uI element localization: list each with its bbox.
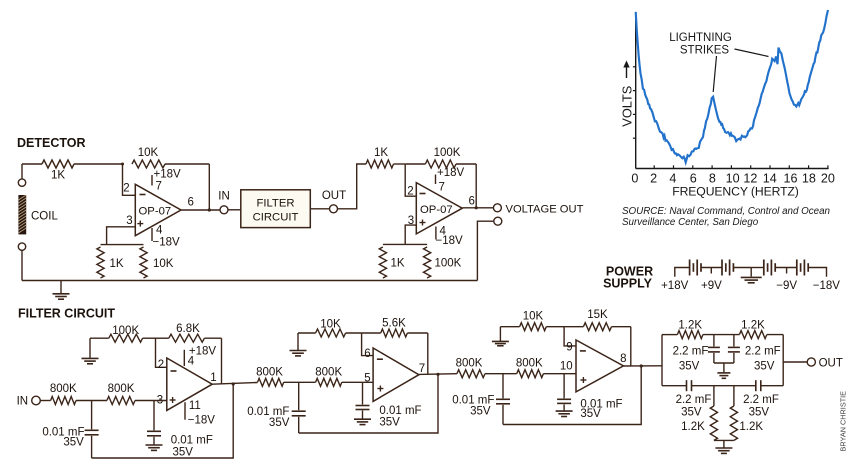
svg-text:35V: 35V (379, 417, 400, 429)
capacitor C6 0.01mF 35V (557, 399, 571, 403)
wire twin-T bottom left segment (662, 385, 687, 387)
wire C6 to ground (563, 404, 565, 411)
ground C6 stage C (556, 411, 573, 416)
label +18V supply U3 (189, 346, 217, 358)
terminal filter IN (32, 396, 41, 405)
node feedback/output junction U1 (208, 208, 211, 211)
label FILTER (256, 198, 294, 210)
wire coil top lead (21, 164, 23, 179)
wire B2 to ground (733, 267, 751, 269)
wire C7 bottom lead (713, 353, 715, 363)
capacitor C5 0.01mF lead (node1 C) (502, 374, 504, 399)
node feedback/output junction U2 (475, 206, 478, 209)
svg-text:1K: 1K (374, 147, 388, 159)
wire twin-T top left segment (662, 334, 677, 336)
spectrum curve (lightning strike noise) (636, 10, 828, 162)
svg-text:STRIKES: STRIKES (680, 45, 730, 57)
svg-text:2.2 mF: 2.2 mF (743, 394, 779, 406)
svg-text:10K: 10K (523, 311, 544, 323)
label +18V supply U2 (437, 167, 465, 179)
svg-text:OUT: OUT (819, 358, 843, 370)
resistor R12 800K (stage A second) (107, 397, 135, 405)
node junction at R1/R2 (121, 163, 124, 166)
svg-text:DETECTOR: DETECTOR (17, 136, 86, 150)
svg-text:−18V: −18V (813, 280, 841, 292)
block FILTER CIRCUIT (241, 190, 310, 228)
label +18V supply U1 (154, 169, 182, 181)
pin 4 stub U3 (183, 350, 185, 366)
label C9 rating 35V (681, 406, 702, 418)
svg-text:35V: 35V (173, 446, 194, 458)
resistor R24 1.2K (twin-T shunt right) (730, 386, 737, 441)
wire OUT to stage2 riser (338, 164, 366, 209)
svg-text:800K: 800K (50, 383, 77, 395)
label U2 pin6 (469, 196, 475, 208)
svg-text:35V: 35V (754, 361, 775, 373)
svg-text:1: 1 (210, 372, 216, 384)
label U1 pin7 (156, 181, 162, 193)
label C5 rating 35V (470, 406, 491, 418)
svg-text:1.2K: 1.2K (678, 319, 702, 331)
label VOLTAGE OUT (506, 203, 584, 215)
graph x-axis tick marks (654, 165, 828, 168)
svg-text:CIRCUIT: CIRCUIT (253, 212, 299, 224)
wire C4 to ground (362, 411, 364, 420)
wire feedback drop stage2 (475, 164, 477, 208)
svg-text:+18V: +18V (154, 169, 182, 181)
svg-text:6: 6 (364, 348, 370, 360)
terminal OUT (330, 205, 338, 213)
svg-text:0: 0 (631, 171, 638, 185)
resistor R1 1K (detector input) (42, 160, 74, 168)
svg-text:3: 3 (126, 215, 132, 227)
label U5 pin10 (560, 361, 573, 373)
wire block to OUT terminal (310, 208, 329, 210)
svg-text:1K: 1K (51, 170, 65, 182)
svg-text:7: 7 (419, 363, 425, 375)
wire shunt bar to ground (723, 440, 725, 447)
coil L1 (18, 195, 26, 234)
label C5 value 0.01 mF (452, 394, 494, 406)
label OUT (filter block output) (322, 190, 346, 202)
wire ground to B3 (751, 267, 764, 269)
label C7 value 2.2 mF (673, 346, 709, 358)
graph x-axis tick labels 0-20 (631, 171, 835, 185)
wire stage B bottom feedback (299, 374, 438, 433)
label U2 inverting - (420, 193, 426, 195)
op-amp U5 (filter stage C) (576, 340, 623, 392)
svg-text:16: 16 (783, 171, 797, 185)
svg-text:8: 8 (709, 171, 716, 185)
wire node to pin2 U2 (405, 164, 416, 196)
label R14 value 5.6K (382, 318, 406, 330)
wire U2 output (462, 207, 493, 209)
resistor R23 1.2K (twin-T shunt left) (710, 386, 717, 441)
svg-text:+18V: +18V (437, 167, 465, 179)
label -18V supply U3 (188, 415, 216, 427)
credit BRYAN CHRISTIE (839, 391, 848, 452)
svg-text:2.2 mF: 2.2 mF (676, 394, 712, 406)
ground detector main (53, 281, 70, 300)
wire R13 to node (346, 332, 362, 334)
label U4 pin6 (364, 348, 370, 360)
wire feedback drop stage B (427, 333, 429, 374)
label U1 non-inverting + (137, 221, 143, 227)
svg-text:OUT: OUT (322, 190, 346, 202)
svg-text:−18V: −18V (436, 235, 464, 247)
terminal coil top (18, 179, 25, 186)
label IN (filter circuit input) (17, 396, 29, 408)
op-amp U2 OP-07 (detector stage 2) (416, 183, 462, 234)
label C1 rating 35V (63, 436, 84, 448)
label R23 value 1.2K (681, 421, 705, 433)
svg-text:10: 10 (560, 361, 573, 373)
svg-text:35V: 35V (63, 436, 84, 448)
label LIGHTNING (669, 32, 732, 44)
capacitor C10 2.2mF 35V (series) (756, 380, 761, 391)
label U4 pin7 (419, 363, 425, 375)
capacitor C8 2.2mF 35V (728, 347, 740, 352)
label +9V (701, 280, 722, 292)
svg-text:FILTER CIRCUIT: FILTER CIRCUIT (18, 307, 115, 321)
label U3 pin11 (189, 400, 201, 412)
label U4 inverting - (377, 358, 383, 360)
label C8 value 2.2 mF (745, 346, 781, 358)
wire R9 to node (143, 337, 156, 339)
svg-text:+9V: +9V (701, 280, 722, 292)
svg-text:20: 20 (821, 171, 835, 185)
wire -18V hook (808, 268, 826, 277)
svg-text:10K: 10K (320, 319, 341, 331)
capacitor C6 0.01mF lead (pin10 C) (563, 374, 565, 399)
resistor R16 800K (stage B second) (316, 378, 342, 386)
svg-text:+18V: +18V (661, 280, 689, 292)
label C2 value 0.01 mF (171, 435, 213, 447)
wire U2 pin3 to divider (405, 225, 416, 244)
wire node to R18 (564, 326, 583, 328)
capacitor C5 0.01mF 35V (496, 399, 510, 404)
label U5 pin8 (620, 353, 626, 365)
svg-text:Surveillance Center, San Diego: Surveillance Center, San Diego (622, 217, 759, 228)
label R11 value 800K (50, 383, 77, 395)
label R1 value 1K (51, 170, 65, 182)
ground C2 stage A (146, 445, 163, 450)
op-amp U4 (filter stage B) (373, 348, 419, 401)
capacitor C4 0.01mF 35V (356, 406, 370, 410)
wire R18 to corner stage C (612, 326, 631, 328)
resistor R6 100K (feedback, stage 2) (425, 160, 456, 168)
wire IN terminal to R11 (40, 400, 50, 402)
label U3 pin1 (210, 372, 216, 384)
svg-text:14: 14 (763, 171, 777, 185)
node feedback junction stage B (436, 373, 439, 376)
wire R11 to node1 A (76, 400, 107, 402)
graph y-axis label VOLTS (620, 86, 635, 127)
svg-text:6.8K: 6.8K (176, 323, 200, 335)
resistor R3 1K (to ground, stage 1) (97, 247, 104, 278)
wire join bar to ground (723, 363, 725, 373)
label C1 value 0.01 mF (42, 426, 84, 438)
wire R17 to node (546, 326, 564, 328)
svg-text:SUPPLY: SUPPLY (603, 276, 653, 290)
wire C5 to bottom feedback (502, 405, 504, 425)
svg-text:1.2K: 1.2K (741, 319, 765, 331)
wire U1 output (181, 209, 220, 211)
wire R20 to pin10 U5 (543, 373, 576, 375)
pin 7 stub U1 (151, 175, 153, 186)
wire ground to R13 (298, 332, 316, 334)
label C4 value 0.01 mF (379, 405, 421, 417)
svg-text:35V: 35V (679, 361, 700, 373)
capacitor C3 0.01mF 35V (292, 411, 306, 416)
wire node to R10 (156, 337, 169, 339)
label U1 OP-07 (139, 206, 172, 218)
ground power supply center (741, 268, 762, 283)
node feedback junction stage A (232, 382, 235, 385)
label U2 pin7 (439, 182, 445, 194)
label U3 pin3 (157, 395, 163, 407)
label R5 value 1K (374, 147, 388, 159)
capacitor C9 2.2mF 35V (series) (687, 380, 692, 391)
svg-text:1K: 1K (110, 258, 124, 270)
label U2 non-inverting + (420, 220, 426, 226)
source note line 1 (622, 206, 830, 217)
svg-text:800K: 800K (108, 383, 135, 395)
resistor R22 1.2K (twin-T top right) (739, 331, 766, 339)
resistor R5 1K (stage 2 input) (366, 160, 394, 168)
label CIRCUIT (253, 212, 299, 224)
wire R15 to node1 B (284, 381, 316, 383)
svg-text:10: 10 (726, 171, 740, 185)
terminal coil bottom (18, 243, 25, 250)
resistor R10 6.8K (feedback stage A) (169, 334, 205, 342)
label U3 pin2 (158, 359, 164, 371)
label U5 pin9 (566, 341, 572, 353)
resistor R20 800K (stage C second) (517, 370, 544, 378)
svg-text:COIL: COIL (31, 211, 58, 223)
svg-text:+18V: +18V (189, 346, 217, 358)
wire R12 to pin3 U3 (135, 400, 167, 402)
label C8 rating 35V (754, 361, 775, 373)
wire C3 to bottom feedback (298, 417, 300, 433)
svg-text:7: 7 (439, 182, 445, 194)
section title FILTER CIRCUIT (18, 307, 115, 321)
wire twin-T left vertical (661, 335, 663, 386)
battery B1 (+18V/+9V cells) (690, 260, 701, 276)
section title SUPPLY (603, 276, 653, 290)
pin 4 stub U2 (435, 227, 437, 240)
label U1 pin3 (126, 215, 132, 227)
label R15 value 800K (256, 367, 283, 379)
label R3 value 1K (110, 258, 124, 270)
resistor R13 10K (stage B) (316, 329, 346, 337)
svg-text:VOLTAGE OUT: VOLTAGE OUT (506, 203, 584, 215)
resistor R2 10K (feedback, detector stage 1) (132, 160, 165, 168)
svg-text:−18V: −18V (153, 236, 181, 248)
terminal final OUT (807, 358, 815, 366)
wire return terminal to rail (477, 221, 493, 280)
label R6 value 100K (434, 147, 461, 159)
capacitor C3 0.01mF lead (node1 B) (298, 382, 300, 410)
wire feedback right drop (208, 164, 210, 210)
svg-text:7: 7 (156, 181, 162, 193)
label final OUT (819, 358, 843, 370)
label C6 rating 35V (580, 408, 601, 420)
svg-text:0.01 mF: 0.01 mF (379, 405, 421, 417)
wire node to R14 (362, 332, 381, 334)
wire C8 bottom lead (733, 353, 735, 363)
capacitor C2 0.01mF lead (pin3 A) (153, 401, 155, 431)
svg-text:1K: 1K (391, 258, 405, 270)
svg-text:2: 2 (123, 183, 129, 195)
label U1 pin4 (156, 225, 163, 237)
battery B3 (ground/-9V cells) (764, 260, 775, 276)
svg-text:−9V: −9V (776, 280, 797, 292)
label U3 inverting - (171, 370, 177, 372)
svg-text:4: 4 (156, 225, 163, 237)
svg-text:35V: 35V (269, 417, 290, 429)
label R22 value 1.2K (741, 319, 765, 331)
label R13 value 10K (320, 319, 341, 331)
wire C10 to right vertical (761, 385, 783, 387)
svg-text:12: 12 (743, 171, 757, 185)
svg-text:1.2K: 1.2K (739, 421, 763, 433)
svg-text:0.01 mF: 0.01 mF (171, 435, 213, 447)
svg-text:1.2K: 1.2K (681, 421, 705, 433)
svg-text:15K: 15K (587, 309, 608, 321)
svg-text:−18V: −18V (188, 415, 216, 427)
label -18V supply U1 (153, 236, 181, 248)
svg-text:6: 6 (469, 196, 475, 208)
wire stage C bottom feedback (503, 366, 641, 425)
svg-text:35V: 35V (681, 406, 702, 418)
label R16 value 800K (315, 367, 342, 379)
svg-text:OP-07: OP-07 (420, 204, 453, 216)
label U5 inverting - (580, 350, 586, 352)
label U3 non-inverting + (170, 397, 176, 403)
label C9 value 2.2 mF (676, 394, 712, 406)
label U5 non-inverting + (580, 377, 586, 383)
svg-text:2: 2 (650, 171, 657, 185)
capacitor C4 0.01mF lead (pin5 B) (362, 382, 364, 404)
svg-text:0.01 mF: 0.01 mF (247, 406, 289, 418)
pin 7 stub U2 (435, 175, 437, 185)
wire node to pin6 U4 (362, 333, 374, 356)
label U1 inverting - (140, 194, 146, 196)
svg-text:100K: 100K (435, 258, 462, 270)
node feedback junction stage C (640, 364, 643, 367)
wire shunt join bar (714, 439, 734, 441)
label -9V (776, 280, 797, 292)
label U4 pin5 (364, 372, 370, 384)
ground twin-T top caps (717, 373, 730, 378)
label R10 value 6.8K (176, 323, 200, 335)
ground stage B top-left (290, 333, 307, 356)
wire divider top bar stage 2 (383, 243, 427, 245)
wire node to pin9 U5 (564, 327, 576, 346)
svg-text:6: 6 (690, 171, 697, 185)
label C7 rating 35V (679, 361, 700, 373)
svg-text:800K: 800K (516, 358, 543, 370)
battery B4 (-9V/-18V cells) (797, 260, 808, 276)
svg-text:2: 2 (158, 359, 164, 371)
label R12 value 800K (108, 383, 135, 395)
resistor R15 800K (stage B first) (258, 378, 284, 386)
svg-text:BRYAN CHRISTIE: BRYAN CHRISTIE (839, 391, 848, 452)
wire U3 output (212, 383, 257, 385)
section title DETECTOR (17, 136, 86, 150)
capacitor C7 2.2mF 35V (708, 347, 720, 352)
ground twin-T shunt (715, 448, 732, 453)
label R24 value 1.2K (739, 421, 763, 433)
resistor R19 800K (stage C first) (457, 370, 485, 378)
wire feedback drop stage C (630, 327, 632, 366)
wire node to pin2 U1 (123, 164, 136, 195)
wire +18V hook (675, 268, 690, 277)
wire R14 to corner stage B (407, 332, 427, 334)
svg-text:FREQUENCY (HERTZ): FREQUENCY (HERTZ) (672, 185, 799, 199)
label -18V supply U2 (436, 235, 464, 247)
capacitor C7 2.2mF lead (713, 335, 715, 347)
pointer line to 8Hz peak (713, 56, 716, 92)
wire detector bottom rail (22, 280, 477, 282)
label R9 value 100K (112, 325, 139, 337)
label R19 value 800K (456, 358, 483, 370)
wire R5 to node (394, 163, 406, 165)
svg-text:2: 2 (407, 186, 413, 198)
graph x-axis (636, 168, 829, 170)
svg-text:0.01 mF: 0.01 mF (452, 394, 494, 406)
label R18 value 15K (587, 309, 608, 321)
pin 4 stub U1 (151, 228, 153, 241)
wire coil bottom lead (21, 250, 23, 280)
wire resistors to C10 (734, 385, 756, 387)
tap +9V (710, 268, 712, 274)
pointer line to 14Hz peak (735, 49, 769, 57)
resistor R9 100K (stage A) (109, 334, 143, 342)
wire R16 to pin5 U4 (342, 381, 373, 383)
label U2 OP-07 (420, 204, 453, 216)
op-amp U1 OP-07 (detector stage 1) (135, 184, 181, 235)
wire R6 to corner (456, 163, 476, 165)
label C2 rating 35V (173, 446, 194, 458)
source note line 2 (622, 217, 759, 228)
svg-text:2.2 mF: 2.2 mF (745, 346, 781, 358)
label U1 pin2 (123, 183, 129, 195)
wire twin-T top right segment (767, 334, 783, 336)
wire C1 to bottom feedback (91, 436, 93, 458)
label C10 rating 35V (749, 406, 770, 418)
wire B1 to B2 (701, 267, 722, 269)
pin 11 stub U3 (184, 402, 186, 420)
wire twin-T to OUT terminal (783, 361, 807, 363)
wire feedback drop stage A (221, 338, 223, 384)
op-amp U3 (filter stage A) (167, 358, 212, 410)
svg-text:800K: 800K (456, 358, 483, 370)
capacitor C8 2.2mF lead (733, 335, 735, 347)
wire node to R6 (405, 163, 425, 165)
svg-text:IN: IN (218, 191, 230, 203)
label R20 value 800K (516, 358, 543, 370)
label U2 pin2 (407, 186, 413, 198)
terminal VOLTAGE OUT (493, 204, 501, 212)
svg-text:35V: 35V (749, 406, 770, 418)
resistor R21 1.2K (twin-T top left) (677, 331, 703, 339)
wire feedback top to corner (165, 163, 209, 165)
resistor R11 800K (stage A first) (51, 397, 76, 405)
svg-text:8: 8 (620, 353, 626, 365)
wire R19 to node1 C (485, 373, 517, 375)
